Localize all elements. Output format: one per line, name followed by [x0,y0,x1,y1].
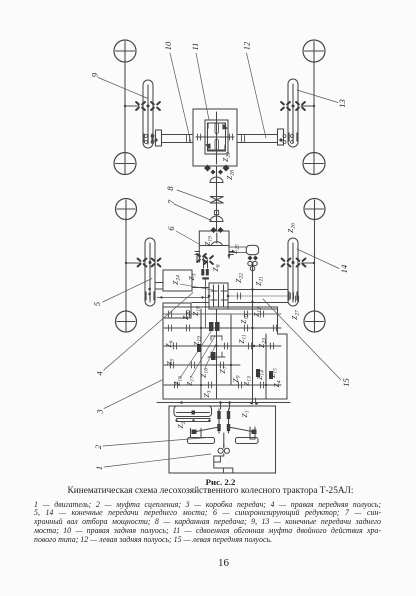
front left track line [125,200,127,332]
rear right track line [313,42,315,175]
svg-text:12: 12 [242,41,252,50]
rear-left bearing rings [145,135,155,144]
svg-text:Z12: Z12 [252,307,263,317]
svg-text:Z27: Z27 [290,310,301,320]
legend line 3 [34,517,381,526]
caption title [3,486,416,496]
front-left final drive housing [145,238,155,306]
legend line 5 [34,535,381,544]
caption figure number [13,477,416,487]
svg-text:Z28: Z28 [225,170,236,180]
clutch lever left [196,427,219,432]
gearbox shaft 2 [216,309,218,399]
clutch stop left [192,430,197,435]
clutch stop right [252,430,257,435]
rear diff cross shaft [196,112,234,164]
cardan collar [214,211,218,215]
wheel rear-left-top [114,40,136,62]
rear-right bearing rings [283,135,294,144]
rear-right small gears bottom [289,133,297,141]
cluster ticks [197,256,200,262]
wheel front-left-top [116,199,137,220]
rear differential inner case [205,120,228,154]
front-left lower gears [146,292,154,300]
svg-text:Z16: Z16 [173,376,184,386]
gear mesh rear-left inner [151,102,160,110]
leader 12 [247,53,267,138]
flywheel friction pads [217,411,230,431]
svg-text:Z22: Z22 [234,273,245,283]
gearbox cross shaft A [164,327,281,329]
sync leg dots [198,254,201,257]
gearbox cross shaft B [164,345,281,347]
legend line 1 [34,500,381,509]
crankshaft [214,444,233,473]
leader 8 [177,190,214,204]
leader 9 [98,78,148,99]
clutch upper rail [177,419,211,422]
rear-left flange [156,130,162,146]
sync reducer input gear [211,227,224,233]
svg-text:14: 14 [339,264,349,273]
rear-left final drive shaft [147,85,149,144]
cardan shaft upper [216,166,218,231]
svg-text:Z13: Z13 [242,376,253,386]
gearbox cross shaft C [164,364,240,366]
svg-text:Z9: Z9 [231,375,242,382]
wheel front-right-top [304,199,325,220]
wheel rear-right-top [303,40,325,62]
pto pass bearing [252,398,255,404]
svg-text:1: 1 [94,466,104,470]
pto through-shaft housing [174,406,212,417]
clutch bracket left [191,429,202,438]
gearbox input shaft upper [205,278,207,328]
gear mesh front-right outer [297,259,306,267]
leader 1 [104,454,211,467]
shift fork bracket upper [211,331,222,340]
gear label leader c [205,342,217,368]
svg-text:3: 3 [95,409,105,414]
leader 7 [174,204,212,221]
gearbox gear ticks row A [168,325,171,331]
gearbox gear ticks row C [170,362,173,368]
crank journals [218,448,223,453]
Z24 pointer [180,284,213,290]
rear left track line [124,42,126,175]
svg-text:10: 10 [163,41,173,50]
synchronizing reducer box [199,231,229,246]
clutch bracket right [250,427,255,439]
gear mesh sync mid [204,256,213,264]
rear-right axle link [301,105,314,107]
svg-text:Z21: Z21 [254,276,265,286]
gearbox junction dots [200,301,267,386]
clutch input shaft [221,403,230,449]
gear label leader b [191,336,215,377]
clutch lever right [229,427,253,432]
svg-text:Z1: Z1 [240,410,251,417]
clutch plate right [236,438,259,444]
gear mesh sync left [197,254,206,262]
sync reducer bowl [211,242,223,246]
overrunning clutch wedge top [223,124,229,130]
shift fork bracket lower [208,352,225,362]
pto clutch gears [248,261,252,265]
front-right final drive shaft [292,243,294,302]
gearbox top edge right [228,308,278,310]
front axle right housing [228,290,288,303]
rear diff side bearings [197,134,200,140]
bevel gears under diff right [218,165,230,175]
legend line 2 [34,508,381,517]
front-right final drive housing [288,238,298,306]
legend line 4 [34,526,381,535]
front diff inner shafts [214,285,224,307]
gearbox gear ticks row D [174,382,177,388]
clutch rail dots [175,419,210,421]
svg-text:Z7: Z7 [218,366,229,373]
gear cluster dark 3 [256,369,273,379]
front drive gear cluster [201,269,209,280]
sync leg gears [195,252,234,255]
svg-text:Z17: Z17 [185,376,196,386]
gearbox case [163,307,287,399]
rear-right final drive shaft [292,84,294,143]
pto clutch link [229,247,246,253]
rear differential housing [193,109,237,166]
diff central slot [215,123,218,134]
flywheel discs [219,409,229,433]
svg-text:5: 5 [92,302,102,306]
svg-text:2: 2 [93,444,103,449]
svg-text:Z29: Z29 [221,152,232,162]
top row gear ticks [168,311,171,317]
svg-text:13: 13 [337,99,347,108]
sync reducer shaft [216,233,218,243]
front axle left housing [155,283,209,303]
svg-text:4: 4 [95,371,105,376]
gearbox bottom flange line [157,402,290,404]
rear-right flange [278,129,284,145]
pto shaft vertical [252,262,254,402]
svg-text:Z10: Z10 [239,314,250,324]
front differential case [209,283,228,309]
leader 6 [176,231,199,244]
front left half shaft [157,296,209,298]
svg-text:9: 9 [90,72,100,77]
svg-text:Z11: Z11 [237,334,248,344]
svg-text:11: 11 [190,43,200,51]
pto shaft coupler [192,411,196,415]
rear-left axle link [125,105,139,107]
overrunning clutch wedge bottom [205,144,211,150]
wheel rear-left-bottom [114,153,136,175]
leader 2 [103,438,208,447]
svg-text:Z3: Z3 [202,390,213,397]
left reduction box Z24 [163,270,192,291]
front diff junction dots [208,295,211,298]
gear cluster dark 1 [209,322,220,331]
bearing rear-left [186,136,189,142]
gearbox cross shaft top [164,313,281,315]
svg-text:Z8: Z8 [211,264,222,271]
gear label leader a [180,330,212,378]
leader 5 [103,279,152,303]
gearbox shaft 3 [230,315,232,385]
svg-text:Z3: Z3 [187,273,198,280]
front-left housing dots [148,288,151,291]
front right axle bearings [237,293,240,299]
front-right axle link [301,262,314,264]
rear-left small gears bottom [144,134,152,142]
page number [16,557,416,569]
front right track line [314,200,316,332]
front right half shaft [228,295,288,297]
svg-text:6: 6 [166,226,176,231]
svg-text:Z26: Z26 [286,223,297,233]
front diff gears [211,291,227,300]
rear-left axle housing [162,135,194,143]
gear mesh rear-left outer [136,102,145,110]
pto clutch housing [246,245,258,254]
left reduction box lower [163,303,191,318]
gearbox gear ticks row B [173,343,176,349]
cardan universal joint [210,197,224,204]
front drive shafts [204,258,208,268]
gearbox shaft 1 [200,309,202,399]
gear cluster dark 2 [197,344,216,360]
gear mesh rear-right outer [296,102,305,110]
leader 15 [263,299,341,380]
bevel gears under diff left [204,165,216,175]
rear diff bevel gears [208,123,225,150]
svg-text:Z24: Z24 [171,275,182,285]
cardan bell 2 [210,216,223,222]
rear-left final drive housing [143,80,153,148]
leader 10 [170,53,191,143]
cardan bell 1 [210,177,223,182]
leader 14 [297,249,339,269]
svg-text:Z4: Z4 [272,380,283,387]
gearbox cross shaft D [164,384,281,386]
pto clutch gear mesh [248,256,259,261]
wheel front-left-bottom [116,311,137,332]
svg-text:15: 15 [341,378,351,387]
flange dots [180,401,258,405]
rear-right final drive housing [288,79,298,147]
rear-right axle housing [237,135,278,143]
leader 3 [104,380,163,409]
engine block outline [169,406,276,473]
pto through-shaft [177,412,210,414]
svg-text:8: 8 [165,186,175,191]
front-left axle link [126,262,141,264]
gear mesh front-left inner [152,259,161,267]
leader 13 [297,90,338,103]
leader 11 [196,53,209,120]
wheel front-right-bottom [304,311,325,332]
gear mesh rear-right inner [281,102,290,110]
wheel rear-right-bottom [303,153,325,175]
clutch plate left [188,438,215,444]
bearing rear-right [241,136,244,142]
leader 4 [104,293,193,371]
gear mesh front-left outer [138,259,147,267]
svg-text:7: 7 [166,199,176,204]
front-left final drive shaft [149,243,151,302]
sync reducer legs [199,246,229,259]
svg-text:Z2: Z2 [176,421,187,428]
gear mesh front-right inner [282,259,291,267]
front-right lower gears [289,292,297,300]
gearbox shaft 4 [265,334,267,399]
